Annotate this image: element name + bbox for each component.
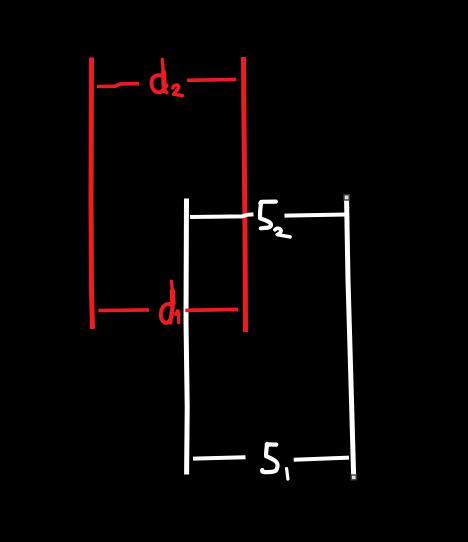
red vertical extension line right [244,57,246,332]
measure line S2 right segment [285,215,347,216]
selection handle top [344,195,349,200]
white vertical measure line left [186,199,187,475]
red vertical extension line left [91,58,93,330]
label d2 : subscript 2 [173,85,183,96]
label S2 : subscript 2 [275,228,290,237]
dimension line d1 left segment [99,308,150,312]
dimension line d2 right segment [187,78,236,83]
selection handle bottom [351,475,356,480]
label d2 : letter d [152,60,167,93]
dimension line d2 left segment [97,84,139,87]
label d1 : letter d [161,281,173,322]
white vertical measure line right [347,196,354,475]
measure line S1 left segment [193,457,246,458]
measure line S2 left segment (over red line) [190,214,254,217]
measure line S1 right segment [294,458,349,460]
dimension line d1 right segment (over white line) [185,309,238,310]
label S1 : letter S [262,444,277,472]
label S1 : subscript 1 [287,469,288,479]
label d1 : subscript 1 [176,311,179,323]
label S2 : letter S [260,202,276,229]
